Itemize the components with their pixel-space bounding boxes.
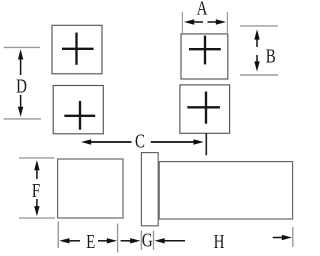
pad P3 center cross xyxy=(189,36,221,65)
svg-text:E: E xyxy=(86,230,95,253)
dimension A extension lines xyxy=(182,12,227,33)
svg-text:G: G xyxy=(142,228,153,251)
dimension B arrows xyxy=(256,35,258,67)
svg-text:F: F xyxy=(32,179,40,202)
dimension H right extension line xyxy=(292,227,294,247)
dimension H right arrow xyxy=(273,237,286,239)
dimension D extension ticks xyxy=(4,47,42,119)
dimension E arrows xyxy=(65,240,112,242)
pad P2 outline (lower-left square) xyxy=(53,86,103,134)
svg-text:D: D xyxy=(16,74,27,97)
dimension C line left segment with left arrowhead xyxy=(87,141,132,143)
dimension G extension lines xyxy=(141,231,153,251)
dimension C line right segment with right arrowhead xyxy=(151,141,198,143)
pad P4 outline (lower-right square) xyxy=(180,85,230,133)
dimension B extension ticks xyxy=(240,26,278,75)
pad P3 outline (upper-right square) xyxy=(181,34,228,79)
pad P1 outline (upper-left square) xyxy=(52,25,102,74)
pad P2 center cross xyxy=(64,101,95,130)
svg-text:A: A xyxy=(197,0,208,19)
dimension G outside arrow left xyxy=(121,240,134,242)
dimension G outside arrow right / H left arrow xyxy=(161,240,186,242)
svg-text:B: B xyxy=(266,44,276,67)
dimension D arrows xyxy=(20,55,22,112)
pad P4 center cross xyxy=(187,92,220,124)
svg-text:C: C xyxy=(135,129,145,152)
body pad H (wide rectangle) xyxy=(159,162,292,219)
tab pad G (narrow column) xyxy=(141,153,158,226)
dimension E extension lines xyxy=(58,222,117,253)
pad P1 center cross xyxy=(62,33,94,65)
body pad E/F (bottom-left square) xyxy=(58,159,123,218)
svg-text:H: H xyxy=(214,230,225,253)
dimension A arrows xyxy=(190,21,220,23)
dimension F arrows xyxy=(36,166,38,211)
dimension F extension ticks xyxy=(19,158,55,218)
pad P4 centerline extension xyxy=(205,133,207,155)
